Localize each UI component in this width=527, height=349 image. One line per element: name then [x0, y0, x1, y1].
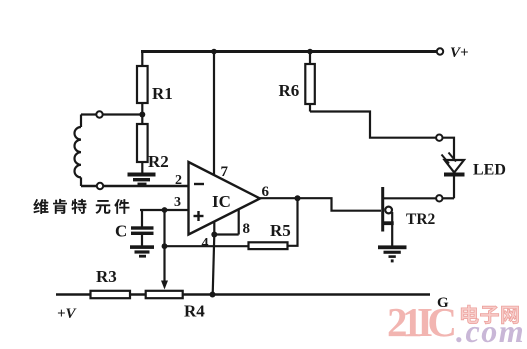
wire pin3 node down — [162, 210, 168, 249]
svg-text:R3: R3 — [96, 267, 117, 286]
watermark 电子网 — [461, 305, 518, 324]
wire output node to R5 right — [288, 198, 298, 246]
ground R2 — [128, 173, 156, 186]
label V+ — [450, 45, 469, 61]
pin 2 label — [175, 173, 182, 188]
resistor R2 — [137, 115, 169, 174]
resistor R6 — [279, 49, 315, 112]
wire bottom rail — [56, 293, 430, 295]
svg-text:4: 4 — [202, 236, 209, 251]
label G — [437, 295, 449, 311]
svg-text:R1: R1 — [152, 84, 173, 103]
label 维肯特元件 — [33, 199, 129, 214]
svg-text:21IC: 21IC — [387, 299, 457, 345]
wire to R5 left — [165, 245, 249, 247]
LED D1 — [442, 153, 506, 199]
wire R6 to LED terminal — [310, 112, 436, 138]
wire coil top — [81, 113, 141, 115]
pin 7 label — [221, 164, 229, 180]
svg-text:C: C — [115, 222, 127, 241]
svg-text:IC: IC — [212, 192, 231, 211]
transistor TR2 — [382, 187, 436, 246]
ground TR2 — [378, 245, 407, 262]
svg-text:7: 7 — [221, 164, 229, 180]
pin 6 label — [262, 184, 270, 200]
svg-text:8: 8 — [243, 221, 251, 237]
label +V — [57, 306, 78, 322]
svg-text:+V: +V — [57, 306, 78, 322]
terminal V+ — [437, 48, 443, 54]
terminal coil top — [96, 111, 102, 117]
resistor R1 — [137, 52, 173, 115]
wire pin 7 — [211, 49, 217, 176]
svg-text:LED: LED — [473, 162, 506, 179]
resistor R5 — [249, 221, 291, 249]
terminal coil bottom — [97, 183, 103, 189]
watermark .com — [456, 313, 525, 349]
wiper wire to R4 — [161, 246, 168, 289]
svg-text:R2: R2 — [148, 152, 169, 171]
pin 8 label — [243, 221, 251, 237]
op-amp IC — [189, 162, 261, 235]
capacitor C — [115, 210, 154, 246]
inductor Wiegand coil — [75, 115, 82, 187]
potentiometer R4 — [146, 291, 206, 321]
node output — [295, 195, 301, 201]
svg-text:2: 2 — [175, 173, 182, 188]
ground C — [130, 245, 154, 257]
svg-text:V+: V+ — [450, 45, 469, 61]
node R1-R2 junction — [139, 112, 145, 118]
wire pin 3 — [140, 207, 189, 213]
wire terminal to LED — [443, 138, 455, 160]
svg-text:TR2: TR2 — [406, 211, 436, 228]
terminal LED top — [436, 135, 442, 141]
watermark 21IC — [387, 299, 457, 345]
svg-text:R4: R4 — [184, 302, 205, 321]
resistor R3 — [91, 267, 131, 298]
wire output to TR2 gate — [298, 198, 382, 211]
wire coil bottom to pin 2 — [81, 185, 189, 188]
wire LED to TR2 collector — [384, 197, 454, 199]
pin 4 label — [202, 236, 209, 251]
svg-text:R6: R6 — [279, 81, 300, 100]
wire V+ rail — [141, 50, 437, 53]
svg-text:3: 3 — [174, 195, 181, 210]
svg-text:R5: R5 — [270, 221, 291, 240]
wire output — [260, 197, 298, 199]
pin 3 label — [174, 195, 181, 210]
terminal LED bottom — [436, 195, 442, 201]
wire pin 4 to rail — [210, 235, 216, 298]
pins 4 and 8 — [211, 210, 238, 238]
